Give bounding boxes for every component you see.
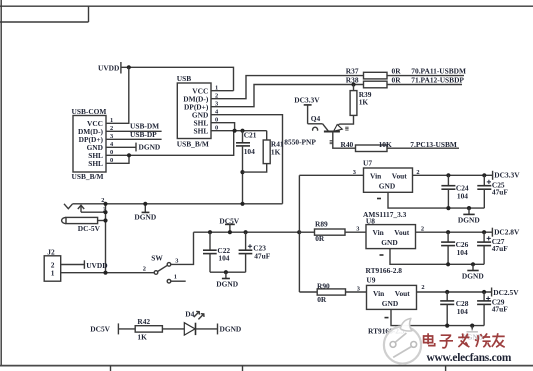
- node UVDD junction: [127, 65, 131, 69]
- svg-text:47uF: 47uF: [492, 304, 509, 313]
- svg-text:C21: C21: [244, 131, 257, 140]
- svg-text:Vout: Vout: [392, 171, 407, 180]
- wire R40 out: [387, 147, 459, 149]
- switch SW: [143, 253, 186, 283]
- svg-text:1K: 1K: [137, 333, 147, 342]
- wire DGND rail: [73, 203, 283, 205]
- capacitor C27: [477, 232, 508, 264]
- wire 5V vertical rail: [298, 175, 300, 292]
- wire R42 to D4: [162, 328, 184, 330]
- wire UVDD rail: [121, 67, 234, 90]
- wire DC3.3V to Q4: [308, 123, 323, 125]
- LED D4: [184, 310, 204, 336]
- net USB-DP: [130, 130, 157, 139]
- node C21 bottom junction: [240, 170, 244, 174]
- svg-text:USB: USB: [177, 74, 191, 83]
- svg-text:8550-PNP: 8550-PNP: [284, 137, 316, 146]
- wire J2 pin1 to switch: [61, 272, 155, 274]
- svg-text:104: 104: [457, 307, 468, 316]
- node 5V rail junction: [297, 230, 301, 234]
- svg-text:RT9166-2.8: RT9166-2.8: [366, 266, 403, 275]
- svg-text:U7: U7: [363, 159, 372, 168]
- svg-text:0R: 0R: [392, 67, 402, 76]
- watermark backdrop glow: [419, 330, 523, 363]
- node U7 bottom junctions: [446, 206, 471, 210]
- wire USB pin6 SHL to R41: [211, 130, 267, 132]
- resistor R39: [350, 85, 372, 116]
- svg-text:DC3.3V: DC3.3V: [294, 95, 320, 104]
- wire USB-COM pin4 to DGND: [106, 146, 136, 148]
- svg-text:GND: GND: [381, 238, 397, 247]
- wire rail to U7 pin3: [299, 174, 363, 176]
- svg-text:DC2.8V: DC2.8V: [494, 228, 520, 237]
- node SHL junction: [127, 153, 131, 157]
- capacitor C21: [236, 131, 257, 204]
- svg-text:UVDD: UVDD: [98, 64, 119, 73]
- wire U7 output: [413, 174, 493, 176]
- svg-text:DC-5V: DC-5V: [78, 224, 101, 233]
- svg-text:SHL: SHL: [88, 159, 103, 168]
- power port DC2.5V (U9 out): [492, 288, 520, 297]
- wire USB pin5: [211, 123, 235, 131]
- svg-text:D4: D4: [185, 310, 194, 319]
- wire U7 GND to bottom: [388, 192, 484, 208]
- watermark logo: [384, 318, 421, 363]
- svg-text:104: 104: [218, 254, 229, 263]
- regulator U8: [366, 216, 416, 275]
- svg-text:7.PC13-USBM: 7.PC13-USBM: [410, 140, 457, 149]
- wire U9 output: [417, 291, 492, 293]
- capacitor C29: [477, 292, 508, 326]
- svg-text:U9: U9: [366, 275, 375, 284]
- svg-text:0R: 0R: [315, 234, 325, 243]
- border bottom line: [0, 365, 533, 367]
- title tab rectangle: [0, 6, 89, 22]
- svg-text:DGND: DGND: [458, 216, 480, 225]
- pin 2 label U8: [421, 226, 424, 233]
- power port DC2.8V (U8 out): [492, 228, 520, 237]
- wire USB pin2 to R37: [211, 76, 364, 99]
- svg-text:2: 2: [143, 265, 146, 272]
- svg-text:J2: J2: [47, 247, 55, 256]
- svg-text:47uF: 47uF: [254, 252, 271, 261]
- svg-text:1K: 1K: [359, 98, 369, 107]
- svg-text:DGND: DGND: [139, 143, 161, 152]
- capacitor C22: [203, 232, 230, 272]
- svg-text:SW: SW: [151, 253, 163, 262]
- connector DC jack tip contact: [64, 204, 73, 209]
- power port DC5V: [219, 216, 239, 232]
- pin number 3 (jack): [103, 207, 106, 214]
- svg-text:USB_B/M: USB_B/M: [72, 172, 104, 181]
- power port DGND (LED row): [218, 324, 242, 335]
- wire C21 to R41 bottom: [243, 164, 267, 173]
- svg-text:www.elecfans.com: www.elecfans.com: [427, 352, 512, 364]
- svg-text:Q4: Q4: [311, 114, 321, 123]
- node rail junctions: [143, 202, 244, 206]
- regulator U7: [363, 159, 413, 219]
- svg-text:104: 104: [244, 147, 255, 156]
- resistor R38: [346, 75, 401, 87]
- power port DC5V (LED row): [90, 323, 118, 334]
- pin 3 label U8: [356, 226, 359, 233]
- svg-text:UVDD: UVDD: [86, 261, 107, 270]
- node U8 output junctions: [446, 230, 486, 234]
- connector USB-COM: [72, 107, 115, 181]
- wire C22-C23 bottom: [210, 271, 246, 273]
- svg-text:70.PA11-USBDM: 70.PA11-USBDM: [411, 67, 466, 76]
- capacitor C25: [477, 175, 508, 208]
- node U9 output junctions: [445, 290, 486, 294]
- svg-text:1: 1: [174, 273, 177, 280]
- border left edge: [0, 0, 2, 366]
- svg-text:Vin: Vin: [370, 171, 381, 180]
- svg-text:47uF: 47uF: [492, 188, 509, 197]
- svg-text:2: 2: [421, 284, 424, 291]
- power port DC3.3V (Q4): [294, 95, 320, 123]
- svg-text:104: 104: [457, 248, 468, 257]
- svg-text:104: 104: [457, 191, 468, 200]
- connector USB: [177, 74, 219, 148]
- svg-text:1: 1: [110, 117, 113, 124]
- ground DGND (U7): [458, 208, 480, 225]
- svg-text:0R: 0R: [392, 75, 402, 84]
- wire DC5V top rail: [194, 231, 300, 233]
- svg-text:DC5V: DC5V: [90, 325, 110, 334]
- node U7 output junctions: [446, 173, 486, 177]
- pin 3 label U7: [353, 169, 356, 176]
- power port DGND (USB-COM pin4): [136, 143, 160, 152]
- svg-text:GND: GND: [379, 181, 395, 190]
- regulator U9: [366, 275, 416, 335]
- wire USB pin3 to R38: [211, 85, 364, 107]
- wire USB pin4 GND down: [211, 115, 283, 204]
- svg-text:GND: GND: [382, 299, 398, 308]
- svg-text:3: 3: [357, 286, 360, 293]
- wire R39 to Q4 emitter: [339, 115, 353, 124]
- resistor R89: [299, 219, 366, 243]
- connector DC jack arrow contact: [78, 205, 106, 212]
- pin 2 label U7: [416, 169, 419, 176]
- node U9 bottom junctions: [445, 324, 474, 328]
- svg-text:R42: R42: [137, 317, 150, 326]
- svg-text:DC3.3V: DC3.3V: [494, 171, 520, 180]
- svg-text:47uF: 47uF: [492, 244, 509, 253]
- svg-text:DGND: DGND: [216, 279, 238, 288]
- svg-text:3: 3: [175, 257, 178, 264]
- wire Q4 base to R40: [333, 132, 356, 149]
- node J2 pin1 junction: [103, 271, 107, 275]
- wire switch to rail: [171, 232, 194, 264]
- svg-text:DGND: DGND: [134, 213, 156, 222]
- wire USB-COM pin6 SHL: [106, 155, 129, 163]
- svg-text:Vin: Vin: [373, 289, 384, 298]
- wire J2 pin2 to UVDD: [61, 264, 85, 266]
- svg-text:3: 3: [353, 169, 356, 176]
- svg-text:SHL: SHL: [194, 127, 209, 136]
- wire U9 GND to bottom: [391, 309, 484, 325]
- wire USB-COM pin2 USB-DM: [106, 130, 162, 132]
- svg-text:USB-COM: USB-COM: [72, 107, 107, 116]
- ground DGND (rail): [134, 204, 156, 222]
- resistor R40: [341, 140, 392, 152]
- net 7.PC13-USBM: [410, 140, 457, 149]
- wire jack common down: [105, 204, 107, 273]
- wire D4 to DGND: [196, 328, 218, 330]
- svg-text:3: 3: [356, 226, 359, 233]
- svg-text:Vout: Vout: [395, 289, 410, 298]
- svg-text:71.PA12-USBDP: 71.PA12-USBDP: [411, 75, 464, 84]
- svg-text:USB_B/M: USB_B/M: [177, 139, 209, 148]
- svg-text:DGND: DGND: [220, 325, 242, 334]
- wire DC5V to R42: [118, 328, 135, 330]
- wire UVDD to USB-COM pin1: [106, 67, 129, 123]
- pin 2 label U9: [421, 284, 424, 291]
- wire USB-COM pin5 SHL: [106, 131, 234, 156]
- svg-text:USB-DP: USB-DP: [130, 130, 157, 139]
- capacitor C26: [441, 232, 469, 264]
- svg-text:1: 1: [51, 269, 55, 278]
- ground DGND (U9): [461, 326, 483, 342]
- resistor R42: [135, 317, 162, 341]
- resistor R90: [299, 281, 366, 304]
- node jack junctions: [103, 202, 107, 223]
- power port DC3.3V (U7 out): [493, 171, 521, 180]
- pin 3 label U9: [357, 286, 360, 293]
- svg-text:R40: R40: [341, 140, 354, 149]
- node SHL-C21 junctions: [233, 129, 245, 133]
- svg-text:DGND: DGND: [462, 272, 484, 281]
- resistor R41: [263, 131, 284, 164]
- net USB-DM: [130, 122, 159, 131]
- ground DGND (C22-C23): [216, 272, 238, 288]
- pin number 2 (jack): [101, 197, 104, 204]
- connector DC jack barrel: [62, 217, 106, 233]
- svg-text:R37: R37: [346, 67, 359, 76]
- transistor Q4: [284, 114, 348, 147]
- border top line: [0, 5, 533, 7]
- svg-text:R89: R89: [315, 219, 328, 228]
- wire USB-COM pin3 USB-DP: [106, 138, 162, 140]
- wire R38 out: [387, 84, 462, 86]
- watermark text www.elecfans.com: [427, 352, 512, 364]
- ground DGND (U8): [462, 264, 484, 280]
- power port UVDD (top): [98, 62, 121, 74]
- svg-text:Vin: Vin: [373, 228, 384, 237]
- capacitor C28: [440, 292, 469, 326]
- resistor R37: [346, 67, 401, 79]
- wire U8 GND to bottom: [390, 249, 484, 265]
- capacitor C24: [441, 175, 469, 208]
- watermark text 电子发烧友 (drawn strokes): [424, 333, 505, 348]
- connector J2: [44, 247, 61, 281]
- bottom tick marks: [111, 366, 446, 371]
- svg-text:0R: 0R: [317, 295, 327, 304]
- power port UVDD (J2): [84, 260, 107, 270]
- node U8 bottom junctions: [446, 262, 475, 266]
- node DC5V junctions: [208, 230, 248, 234]
- net 70.PA11-USBDM: [411, 67, 466, 76]
- wire U8 output: [416, 231, 493, 233]
- svg-text:1K: 1K: [271, 147, 281, 156]
- capacitor C23: [239, 232, 271, 272]
- svg-text:Vout: Vout: [394, 228, 409, 237]
- wire USB pin1: [211, 90, 234, 92]
- svg-text:DC2.5V: DC2.5V: [493, 288, 519, 297]
- node R38 junction: [351, 82, 355, 86]
- net 71.PA12-USBDP: [411, 75, 464, 84]
- wire R37 out: [387, 75, 464, 77]
- node bottom junction: [224, 270, 228, 274]
